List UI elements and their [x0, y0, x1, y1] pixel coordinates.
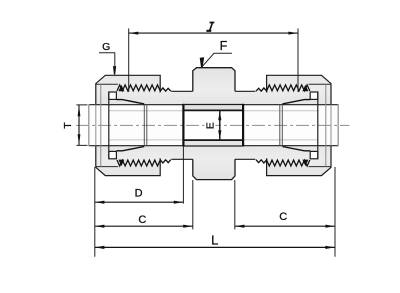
tube right outline: [243, 105, 338, 146]
front ferrule lines crossing tube left: [144, 105, 147, 146]
back ferrule edge right (long vertical): [317, 92, 319, 159]
tube bore line right (light): [243, 110, 318, 112]
thread solid tooth top-right: [302, 85, 308, 92]
dimension L: line: [95, 246, 335, 248]
body web bore lines: [184, 110, 242, 140]
dimension C right: arrow right: [325, 225, 334, 228]
svg-text:F: F: [220, 39, 228, 53]
dimension D: right extension line: [182, 147, 184, 204]
ferrule notch box bottom-left (white): [109, 151, 117, 158]
svg-text:L: L: [211, 233, 218, 248]
body shoulder lines: [171, 91, 255, 159]
dimension top: label I (italic serif, drawn): [206, 22, 214, 32]
dimension E: label backing: [205, 121, 216, 131]
nut left inner step: [100, 84, 102, 166]
svg-text:G: G: [102, 41, 110, 53]
ferrule step and cone bottom-right: [282, 147, 310, 151]
body upper silhouette (nuts + hex body + web), gray fill: [96, 68, 331, 111]
centerline: [76, 124, 350, 126]
dimension D: arrow left: [95, 201, 104, 204]
back ferrule edge left (long vertical): [108, 92, 110, 159]
thread solid tooth bottom-right: [302, 160, 308, 167]
body lower silhouette (mirror): [96, 140, 331, 180]
thread solid tooth bottom-left: [118, 160, 124, 167]
ferrule notch box top-left (white): [109, 92, 117, 99]
tube bore line left (light): [109, 110, 184, 112]
nut right outline: [267, 75, 331, 175]
dimension G: leader: [99, 53, 115, 66]
dimension G: arrow: [113, 66, 116, 74]
dimension L: arrow left: [95, 246, 104, 249]
dimension F: arrow: [200, 57, 205, 67]
dimension C right: arrow left: [235, 225, 244, 228]
dimension E: line: [219, 111, 221, 140]
tube left end face: [88, 104, 90, 146]
dimension C left: arrow left: [95, 225, 104, 228]
dimension L: arrow right: [325, 246, 334, 249]
thread zigzag bottom-right: [256, 160, 310, 166]
dimension T: arrow up: [78, 105, 81, 116]
tube bore line left bottom (light): [109, 139, 184, 141]
tube stop right: [242, 104, 244, 147]
tube right (white): [243, 105, 338, 146]
tube bore line right bottom (light): [243, 139, 318, 141]
dimension top: extension line right: [297, 28, 299, 92]
ferrule notch box top-right (white): [310, 92, 318, 99]
dimension T: ext ticks: [76, 105, 87, 145]
ferrule step and cone bottom-left: [116, 147, 144, 151]
dimension C left: arrow right: [183, 225, 192, 228]
nut left outline: [96, 75, 160, 175]
svg-text:T: T: [62, 122, 74, 129]
dimension T: arrow down: [78, 134, 81, 145]
tube left outline: [89, 105, 184, 146]
dimension top: line: [129, 32, 298, 34]
dimension C right: left extension line: [234, 180, 236, 229]
dimension top: arrow right: [288, 32, 297, 35]
thread solid tooth top-left: [118, 85, 124, 92]
dimension F: leader: [202, 53, 232, 66]
front ferrule lines crossing tube right: [280, 105, 283, 146]
hex body outline: [193, 68, 235, 180]
thread zigzag bottom-left: [117, 160, 171, 166]
nut right hex shoulder lines: [309, 84, 331, 166]
ferrule step and cone top-left: [116, 100, 144, 104]
ferrule step and cone top-right: [282, 100, 310, 104]
nut right back face across tube: [330, 105, 332, 146]
thread zigzag top-right: [256, 85, 310, 91]
nut left back face across tube: [95, 105, 97, 146]
svg-text:E: E: [204, 122, 216, 129]
dimension E: arrow down: [218, 130, 221, 139]
svg-text:C: C: [279, 211, 287, 223]
dimension C left: line: [95, 225, 193, 227]
svg-text:D: D: [135, 187, 143, 199]
dimension top: arrow left: [129, 32, 138, 35]
dimension C right: line: [235, 225, 335, 227]
tube stop left: [182, 104, 184, 147]
dimension D: arrow right: [174, 201, 183, 204]
dimension E: arrow up: [218, 111, 221, 120]
nut right inner step: [325, 84, 327, 166]
dimension C right: right extension line: [334, 167, 336, 257]
tube left (white): [89, 105, 184, 146]
dimension C left: right extension line: [192, 180, 194, 229]
dimension D/C/L: shared left extension line: [94, 167, 96, 257]
svg-text:C: C: [138, 214, 146, 226]
dimension D: line: [95, 201, 184, 203]
tube right end face: [337, 104, 339, 146]
thread zigzag top-left: [117, 85, 171, 91]
nut left hex shoulder lines: [96, 84, 118, 166]
dimension T: line: [78, 105, 80, 146]
ferrule notch box bottom-right (white): [310, 151, 318, 158]
dimension top: extension line left: [128, 28, 130, 92]
